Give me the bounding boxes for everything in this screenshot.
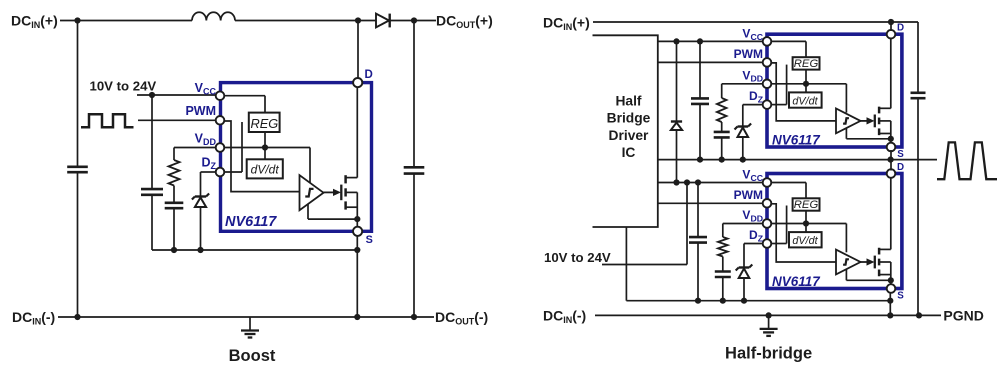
svg-text:DZ: DZ xyxy=(749,89,764,104)
svg-text:VDD: VDD xyxy=(742,68,763,83)
svg-text:10V to 24V: 10V to 24V xyxy=(544,250,611,265)
svg-text:Bridge: Bridge xyxy=(607,111,651,126)
svg-text:VCC: VCC xyxy=(742,27,763,42)
svg-text:DZ: DZ xyxy=(749,228,764,243)
svg-text:S: S xyxy=(897,149,904,160)
svg-text:D: D xyxy=(897,23,904,34)
svg-text:dV/dt: dV/dt xyxy=(792,235,818,247)
svg-text:REG: REG xyxy=(794,199,819,211)
svg-text:D: D xyxy=(897,162,904,173)
svg-text:DCIN(-): DCIN(-) xyxy=(12,309,55,327)
svg-text:IC: IC xyxy=(622,145,636,160)
svg-text:PGND: PGND xyxy=(943,308,983,324)
svg-text:PWM: PWM xyxy=(734,188,763,202)
svg-text:dV/dt: dV/dt xyxy=(792,95,818,107)
svg-text:VDD: VDD xyxy=(742,208,763,223)
svg-text:DCOUT(-): DCOUT(-) xyxy=(435,309,488,327)
svg-text:NV6117: NV6117 xyxy=(772,132,821,147)
svg-text:DZ: DZ xyxy=(201,156,216,172)
svg-text:PWM: PWM xyxy=(185,104,216,118)
svg-text:DCIN(+): DCIN(+) xyxy=(543,15,590,33)
svg-text:REG: REG xyxy=(251,116,279,131)
svg-text:S: S xyxy=(897,291,904,302)
svg-text:10V to 24V: 10V to 24V xyxy=(90,79,157,94)
svg-text:Boost: Boost xyxy=(229,347,276,365)
svg-text:S: S xyxy=(366,234,373,246)
svg-text:Driver: Driver xyxy=(609,128,650,143)
svg-text:Half: Half xyxy=(615,94,641,109)
svg-text:REG: REG xyxy=(794,58,819,70)
svg-text:VCC: VCC xyxy=(742,168,763,183)
svg-text:D: D xyxy=(365,69,373,81)
svg-text:DCIN(+): DCIN(+) xyxy=(11,13,58,31)
svg-text:Half-bridge: Half-bridge xyxy=(725,345,812,363)
svg-text:PWM: PWM xyxy=(734,47,763,61)
svg-text:NV6117: NV6117 xyxy=(225,214,277,230)
svg-text:dV/dt: dV/dt xyxy=(251,163,280,177)
svg-text:DCOUT(+): DCOUT(+) xyxy=(436,13,493,31)
svg-text:VDD: VDD xyxy=(195,132,217,148)
svg-text:DCIN(-): DCIN(-) xyxy=(543,308,586,326)
svg-text:VCC: VCC xyxy=(195,81,217,97)
svg-text:NV6117: NV6117 xyxy=(772,274,821,289)
